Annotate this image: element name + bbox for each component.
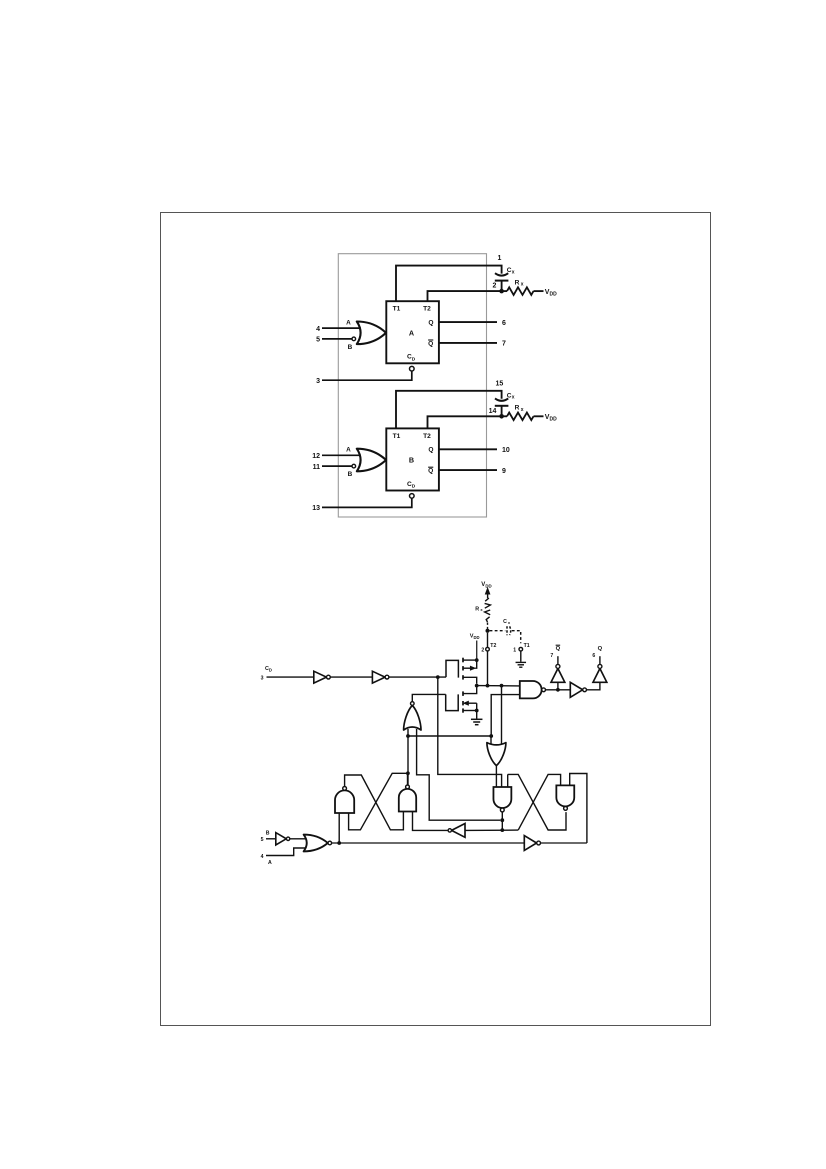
bubble U5 (583, 688, 587, 692)
wire U13 input right (570, 774, 587, 844)
bubble U11 (448, 829, 451, 832)
wire input pin 5 (322, 338, 352, 340)
label Q (A) (428, 320, 433, 327)
junction dot R1out/row830 (500, 828, 504, 832)
nand U9 (latch, up) (335, 790, 354, 813)
wire feedback row (507, 774, 509, 787)
inverter U16 (bus) (524, 836, 536, 851)
svg-text:R: R (515, 405, 520, 412)
svg-text:T1: T1 (393, 306, 401, 313)
svg-text:4: 4 (261, 854, 264, 860)
dashed wire Rx to junction (487, 623, 489, 630)
label T2 (A) (423, 306, 431, 313)
junction dot Q2 source (475, 709, 479, 713)
label T1 (B) (393, 433, 401, 440)
svg-text:7: 7 (502, 341, 506, 348)
wire row 830 (465, 829, 518, 831)
wire U14 to NOR (290, 838, 307, 840)
input OR gate (A) (357, 322, 386, 345)
wire Q2 to ground (476, 711, 478, 719)
Q2 substrate arrow (464, 701, 477, 710)
svg-text:A: A (409, 328, 414, 337)
label Rx (A) (515, 280, 524, 288)
pin 3 (CD) (261, 675, 264, 681)
junction dot U9-in/bus (337, 841, 341, 845)
junction dot U7-in/L2out (406, 771, 410, 775)
svg-text:B: B (409, 456, 414, 465)
wire U10 out crosscouple (349, 773, 408, 830)
wire NOR output to N-FET gate (412, 694, 445, 701)
terminal T2 (486, 647, 490, 651)
pin 12 (312, 453, 320, 460)
wire VDD to Q1 (476, 641, 478, 660)
pin 4 (A) (261, 854, 264, 860)
label T1 (A) (393, 306, 401, 313)
bubble U14 (286, 837, 289, 840)
monostable block B (386, 428, 439, 490)
label Rx (detail) (475, 606, 483, 612)
inverter U4 (Qbar driver) (551, 669, 565, 683)
pin 7 (Qbar) (550, 653, 553, 659)
wire B input (266, 838, 276, 840)
junction dot node/OR (500, 684, 504, 688)
wire T2-A to node (428, 291, 500, 301)
wire Qbar output pin 7 (439, 342, 497, 344)
svg-text:Q: Q (556, 646, 561, 652)
capacitor Cx (A) (495, 267, 515, 280)
resistor Rx (A) (507, 287, 534, 295)
junction dot FET output node (475, 684, 479, 688)
wire U10 out up (407, 773, 409, 785)
ground (Q2) (471, 719, 483, 724)
wire Rx to VDD (B) (534, 415, 544, 417)
svg-text:7: 7 (550, 653, 553, 659)
pin 15 (496, 380, 504, 387)
wire Q output pin 6 (439, 321, 497, 323)
wire U7 input right (417, 729, 501, 820)
pin 10 (502, 447, 510, 454)
label Q (B) (428, 447, 433, 454)
wire R1 output (501, 812, 503, 830)
junction dot U3 out (556, 688, 560, 692)
label T2 (490, 643, 496, 649)
svg-text:11: 11 (313, 464, 321, 471)
wire U16 output (541, 842, 587, 844)
label VDD (B) (545, 414, 557, 423)
label Qbar (B) (428, 467, 433, 474)
bubble U3 (542, 688, 546, 692)
Q1 substrate arrow (463, 662, 477, 671)
wire Cx to node (B) (501, 406, 503, 417)
wire NAND input 2 (491, 695, 520, 736)
gate input label A (B) (346, 447, 351, 454)
svg-text:4: 4 (316, 326, 320, 333)
transistor Q2 (N-channel) channel bars (462, 691, 464, 712)
wire T1-B to Cx (396, 391, 502, 429)
wire Rx to VDD (A) (534, 290, 544, 292)
label VDD (A) (545, 289, 557, 298)
input OR gate (B) (357, 449, 386, 472)
wire U5 to Q buffer (587, 682, 600, 690)
svg-text:9: 9 (502, 468, 506, 475)
label CD (input) (265, 666, 272, 673)
svg-text:B: B (266, 830, 270, 836)
label Qbar (A) (428, 340, 433, 347)
svg-text:10: 10 (502, 447, 510, 454)
svg-text:13: 13 (312, 505, 320, 512)
capacitor Cx (B) (495, 392, 515, 405)
resistor Rx (B) (507, 413, 534, 421)
gate input label A (A) (346, 320, 351, 327)
reset bubble CD (B) (410, 494, 415, 499)
wire OR input right (501, 686, 503, 749)
svg-text:15: 15 (496, 380, 504, 387)
bubble U1 (327, 675, 331, 679)
pin 6 (502, 320, 506, 327)
logic-diagram enclosure box (338, 254, 486, 517)
svg-text:T2: T2 (490, 643, 496, 649)
gate input label B (A) (348, 344, 353, 351)
wire U8 output (495, 766, 497, 787)
nor gate U15 (A+B) (304, 835, 328, 852)
svg-text:3: 3 (316, 378, 320, 385)
bubble U13 (564, 807, 568, 811)
svg-text:2: 2 (481, 647, 484, 653)
wire node to Rx (B) (502, 415, 507, 417)
block name B (409, 456, 414, 465)
wire T2 to node (487, 651, 489, 686)
monostable block A (386, 301, 439, 363)
wire bus (332, 842, 525, 844)
wire Qbar pin (557, 656, 559, 664)
wire T2-B to node (428, 416, 500, 428)
label Cx (detail) (503, 619, 511, 625)
pin 1 (T1) (513, 647, 516, 653)
bubble U9 (343, 787, 347, 791)
or gate U8 (down) (487, 743, 506, 766)
pin 4 (316, 326, 320, 333)
svg-text:B: B (348, 471, 353, 478)
junction dot CD node (436, 675, 440, 679)
svg-text:CD: CD (265, 666, 272, 673)
junction dot feedback/R1out (500, 818, 504, 822)
svg-text:Q: Q (428, 447, 433, 454)
node junction pin2 (A) (499, 289, 504, 294)
bubble U16 (537, 841, 541, 845)
Q2 source lead (463, 710, 477, 712)
bubble U2 (385, 675, 389, 679)
inverter U1 (CD) (314, 671, 327, 683)
bubble U15 (328, 841, 332, 845)
inverter U2 (CD) (372, 671, 385, 683)
label A (input) (268, 860, 272, 866)
pin 2 (T2) (481, 647, 484, 653)
nand U13 (latch, down) (556, 785, 574, 806)
junction dot U7-in/row1 (406, 734, 410, 738)
inverter U6 (Q driver) (593, 669, 607, 683)
svg-text:x: x (512, 395, 515, 401)
svg-text:B: B (348, 344, 353, 351)
bubble U10 (406, 785, 410, 789)
svg-text:5: 5 (316, 337, 320, 344)
junction dot RC node (486, 629, 490, 633)
label T2 (B) (423, 433, 431, 440)
gate bracket N-FET (446, 694, 459, 710)
nand U10 (latch, up) (399, 789, 416, 812)
wire node to Rx (A) (502, 290, 507, 292)
label VDD (top of detail) (481, 582, 491, 589)
svg-text:A: A (268, 860, 272, 866)
wire U9 input left (338, 813, 340, 843)
pin 13 (312, 505, 320, 512)
pin 2 (492, 283, 496, 290)
pin 6 (Q) (592, 653, 595, 659)
svg-text:C: C (503, 619, 507, 625)
bubble U6 (598, 664, 602, 668)
label Rx (B) (515, 405, 524, 413)
arrow to VDD (485, 588, 489, 598)
svg-text:3: 3 (261, 675, 264, 681)
svg-text:1: 1 (497, 255, 501, 262)
svg-text:x: x (512, 269, 515, 275)
pin 9 (502, 468, 506, 475)
wire crosscouple D2 (518, 774, 560, 830)
label Qbar (detail) (556, 645, 561, 652)
transistor Q1 (P-channel) channel bars (462, 658, 464, 680)
svg-text:VDD: VDD (470, 634, 480, 641)
bubble U7 (411, 702, 415, 706)
inverter U11 (left-pointing) (452, 824, 466, 838)
svg-text:A: A (346, 447, 351, 454)
page outer border frame (161, 213, 711, 1026)
wire row1 (408, 735, 491, 737)
gate input label B (B) (348, 471, 353, 478)
pin 7 (502, 341, 506, 348)
label CD (A) (407, 354, 416, 363)
gate bracket P-FET (446, 660, 458, 677)
wire input pin 11 (322, 465, 352, 467)
wire crosscouple D1 (508, 774, 566, 830)
svg-text:T2: T2 (423, 433, 431, 440)
pin 11 (313, 464, 321, 471)
nand U12 (latch, down) (493, 787, 511, 808)
pin 5 (316, 337, 320, 344)
svg-text:VDD: VDD (481, 582, 491, 589)
wire U7 input left (407, 729, 409, 786)
wire U2 to gate node (389, 676, 446, 678)
svg-text:2: 2 (492, 283, 496, 290)
wire OR input left (490, 736, 492, 749)
nor gate U7 (up) (404, 705, 421, 730)
pin 3 (316, 378, 320, 385)
svg-text:Q: Q (428, 340, 433, 347)
block name A (409, 328, 414, 337)
wire U3 output (546, 689, 571, 691)
pin 5 (B) (261, 837, 264, 843)
wire U10 input right (413, 812, 448, 831)
junction dot row1/OR-in (489, 734, 493, 738)
svg-text:Q: Q (428, 320, 433, 327)
Q2 drain lead (463, 688, 477, 694)
label CD (B) (407, 481, 416, 490)
junction dot Q1/VDD (475, 658, 479, 662)
inverter U14 (B) (276, 833, 287, 845)
pin 1 (497, 255, 501, 262)
svg-text:Q: Q (598, 646, 603, 652)
Q1 drain lead (463, 659, 477, 661)
wire Cx to node (A) (501, 281, 503, 292)
wire A input (266, 848, 307, 856)
ground (T1) (516, 662, 527, 667)
svg-text:6: 6 (592, 653, 595, 659)
wire input pin 12 (322, 454, 361, 456)
wire input pin 4 (322, 327, 361, 329)
svg-text:14: 14 (489, 408, 497, 415)
reset bubble CD (A) (410, 366, 415, 371)
wire to Qbar buffer (557, 682, 559, 690)
nand gate U3 (520, 681, 542, 698)
svg-text:T2: T2 (423, 306, 431, 313)
wire U9 out crosscouple (345, 775, 404, 830)
svg-text:1: 1 (513, 647, 516, 653)
terminal T1 (519, 647, 523, 651)
wire U1 to U2 (330, 676, 372, 678)
wire Q pin (599, 656, 601, 664)
inverting bubble input B (A) (352, 337, 356, 341)
svg-text:5: 5 (261, 837, 264, 843)
dashed wire Cx to T1 (512, 631, 521, 644)
node junction pin14 (B) (499, 414, 504, 419)
inverter U5 (570, 682, 582, 697)
wire T2 stem (487, 633, 489, 648)
junction dot node/T2 (486, 684, 490, 688)
label T1 (524, 643, 530, 649)
wire Q output pin 10 (439, 448, 497, 450)
wire CD input (267, 676, 314, 678)
svg-text:R: R (515, 280, 520, 287)
Q1 source lead (463, 677, 477, 684)
dashed wire junction to Cx (490, 630, 506, 632)
svg-text:x: x (521, 282, 524, 288)
wire T1 to ground (520, 651, 522, 662)
svg-text:T1: T1 (393, 433, 401, 440)
svg-text:6: 6 (502, 320, 506, 327)
wire CD node down (438, 677, 502, 787)
inverting bubble input B (B) (352, 464, 356, 468)
svg-text:12: 12 (312, 453, 320, 460)
label Q (detail) (598, 646, 603, 652)
svg-text:T1: T1 (524, 643, 530, 649)
svg-text:R: R (475, 606, 479, 612)
wire reset pin 13 (322, 498, 412, 507)
resistor Rx (detail, vertical zigzag) (485, 598, 491, 622)
svg-text:x: x (521, 407, 524, 413)
wire T1-A to Cx (396, 266, 502, 302)
svg-text:Q: Q (428, 468, 433, 475)
pin 14 (489, 408, 497, 415)
wire reset pin 3 (322, 371, 412, 380)
bubble U4 (556, 664, 560, 668)
wire FET node to NAND (477, 685, 520, 687)
label VDD (Q1 drain) (470, 634, 480, 641)
capacitor Cx (detail, dashed) (507, 626, 511, 635)
svg-text:A: A (346, 320, 351, 327)
label B (input) (266, 830, 270, 836)
bubble U12 (500, 808, 504, 812)
wire Qbar output pin 9 (439, 469, 497, 471)
